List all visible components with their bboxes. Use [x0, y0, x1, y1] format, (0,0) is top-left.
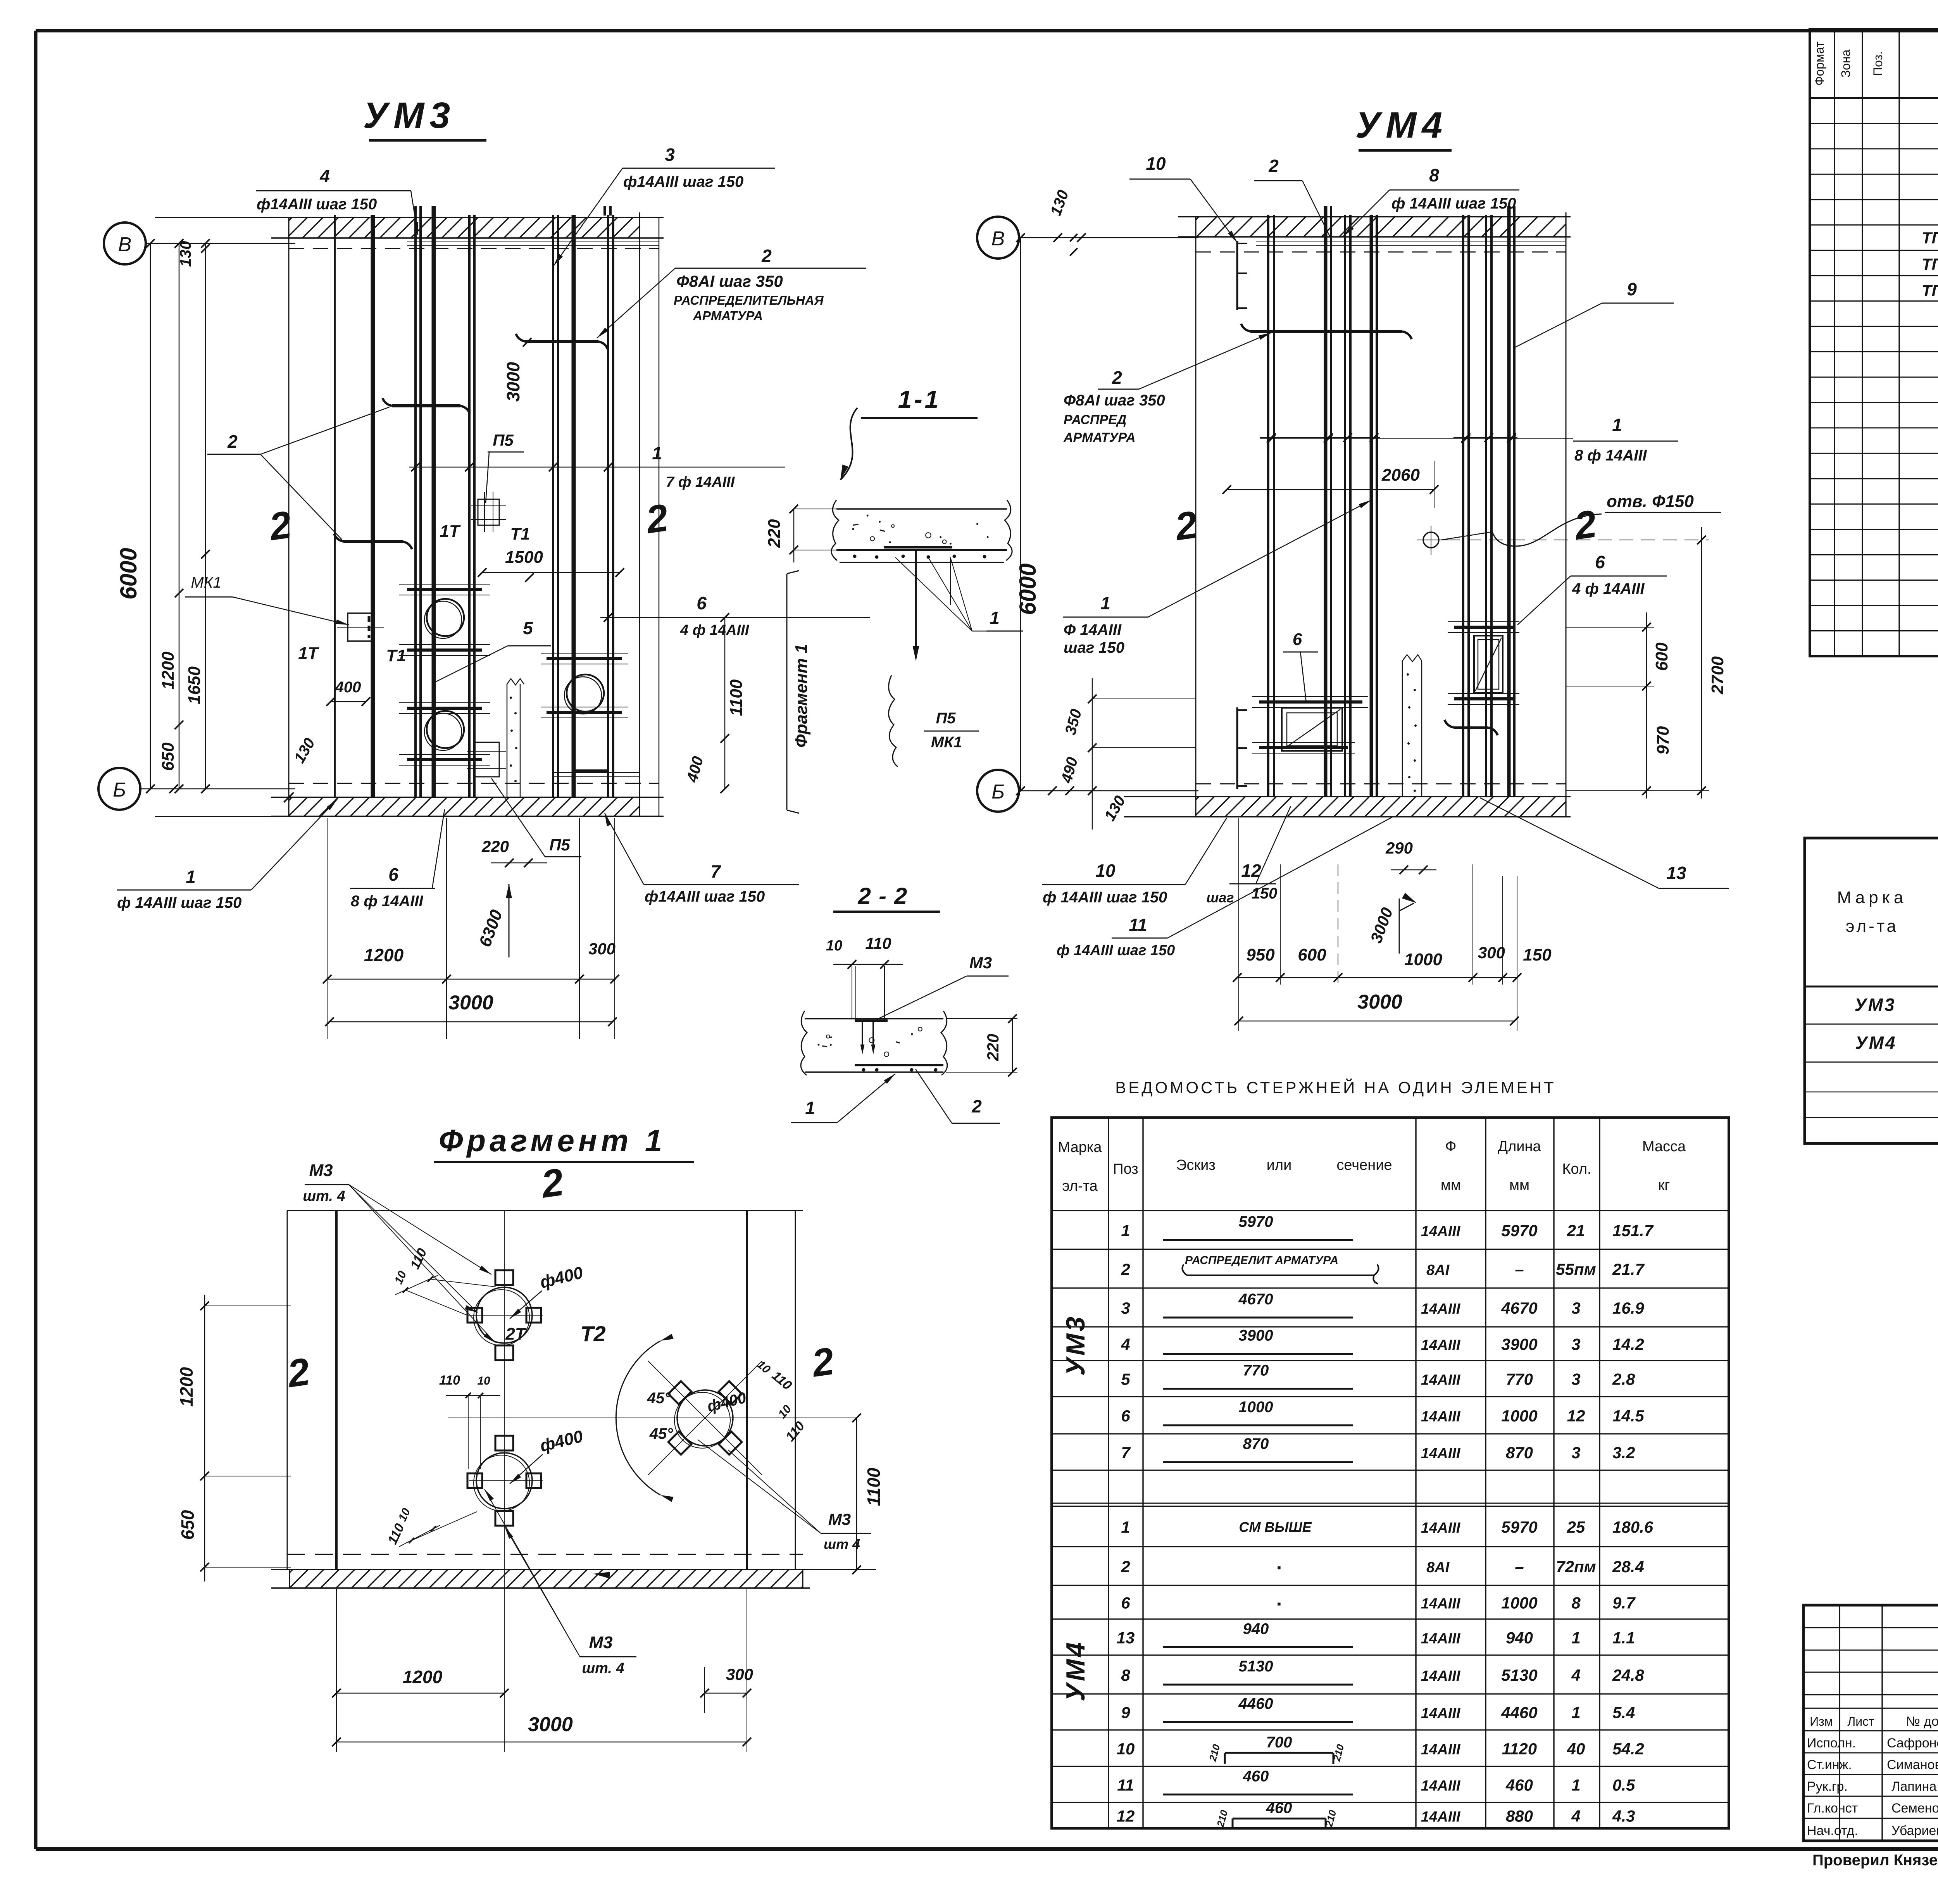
- svg-text:АРМАТУРА: АРМАТУРА: [1063, 430, 1136, 445]
- fragment 1 bottom slab: [271, 1554, 810, 1588]
- UM4 hole otv150: [1417, 526, 1446, 555]
- UM4 left dim chain bottom: [1058, 678, 1196, 830]
- svg-text:Ст.инж.: Ст.инж.: [1807, 1757, 1852, 1772]
- svg-text:Формат: Формат: [1812, 41, 1826, 86]
- svg-text:3000: 3000: [1357, 991, 1402, 1013]
- section 2-2 label 1: [791, 1074, 895, 1123]
- svg-text:мм: мм: [1441, 1177, 1461, 1193]
- svg-text:шаг 150: шаг 150: [1064, 639, 1124, 656]
- spec table header: [1812, 41, 1938, 86]
- UM4 vertical rebars: [1268, 206, 1514, 797]
- svg-text:Длина: Длина: [1498, 1138, 1541, 1155]
- fragment 1 small dims A1: [392, 1246, 496, 1316]
- fragment 1 A3 diagonals: [648, 1361, 762, 1475]
- svg-text:220: 220: [984, 1034, 1002, 1061]
- fragment 1 walls: [287, 1211, 795, 1569]
- svg-text:8: 8: [1121, 1666, 1130, 1684]
- rod row UM3-4: [1121, 1327, 1644, 1354]
- svg-text:1200: 1200: [364, 945, 404, 965]
- svg-text:4 ф 14АIII: 4 ф 14АIII: [1572, 580, 1645, 597]
- svg-text:4670: 4670: [1238, 1291, 1273, 1308]
- svg-text:РАСПРЕДЕЛИТ АРМАТУРА: РАСПРЕДЕЛИТ АРМАТУРА: [1185, 1254, 1338, 1267]
- section 1-1 title: [861, 385, 978, 418]
- svg-text:40: 40: [1567, 1740, 1585, 1758]
- svg-text:Ф 14АIII: Ф 14АIII: [1064, 621, 1122, 638]
- UM4 grid circle B2: [977, 770, 1198, 812]
- svg-text:5.4: 5.4: [1612, 1704, 1635, 1722]
- section 2-2 slab: [801, 1011, 947, 1075]
- svg-text:Рук.гр.: Рук.гр.: [1807, 1779, 1848, 1794]
- svg-text:7 ф 14АIII: 7 ф 14АIII: [666, 474, 735, 490]
- UM4 label 2 top: [1254, 156, 1331, 239]
- svg-text:14АIII: 14АIII: [1421, 1409, 1461, 1425]
- rod row UM4-2: [1121, 1557, 1644, 1576]
- svg-text:3.2: 3.2: [1612, 1444, 1635, 1462]
- svg-text:4460: 4460: [1501, 1704, 1537, 1722]
- svg-text:2700: 2700: [1708, 656, 1727, 695]
- svg-text:6: 6: [1121, 1407, 1130, 1425]
- svg-text:14.2: 14.2: [1612, 1335, 1644, 1354]
- svg-text:шт 4: шт 4: [824, 1536, 860, 1552]
- svg-text:В: В: [991, 228, 1005, 250]
- svg-text:10: 10: [826, 938, 842, 954]
- svg-text:М3: М3: [828, 1510, 851, 1528]
- spec row KZhI-MK1: [1922, 254, 1938, 275]
- UM4 otv150 label: [1441, 492, 1721, 546]
- svg-text:МК1: МК1: [191, 574, 221, 591]
- svg-text:600: 600: [1298, 945, 1326, 964]
- svg-text:Нач.отд.: Нач.отд.: [1807, 1823, 1858, 1838]
- svg-text:2: 2: [1112, 367, 1122, 388]
- svg-text:шт. 4: шт. 4: [582, 1660, 624, 1676]
- svg-text:2060: 2060: [1381, 466, 1420, 485]
- svg-text:СМ ВЫШЕ: СМ ВЫШЕ: [1239, 1519, 1312, 1535]
- svg-text:Кол.: Кол.: [1562, 1161, 1591, 1177]
- svg-text:220: 220: [765, 519, 784, 548]
- rod row UM4-11: [1117, 1768, 1635, 1795]
- svg-text:950: 950: [1246, 945, 1275, 964]
- svg-text:9: 9: [1627, 279, 1637, 299]
- rod list header: [1058, 1138, 1686, 1194]
- svg-text:9: 9: [1121, 1704, 1130, 1722]
- svg-text:21: 21: [1567, 1221, 1585, 1240]
- fragment 1 small dims A2 top: [439, 1373, 500, 1469]
- UM3 bottom dim row 1: [323, 940, 619, 983]
- UM3 bottom label 1: [117, 799, 337, 911]
- rod row UM4-9: [1121, 1695, 1635, 1722]
- svg-text:ТП: ТП: [1922, 255, 1938, 273]
- svg-text:1200: 1200: [176, 1367, 197, 1407]
- UM3 opening O2: [424, 711, 464, 750]
- spec row KZhI-P5: [1922, 280, 1938, 301]
- section 1-1 dim 220: [765, 505, 837, 562]
- fragment 1 f400 label A3: [705, 1389, 748, 1415]
- svg-text:сечение: сечение: [1336, 1157, 1392, 1173]
- UM3 column strip dotted: [507, 679, 524, 797]
- svg-text:28.4: 28.4: [1612, 1557, 1644, 1576]
- svg-text:1: 1: [186, 867, 196, 887]
- UM3 label 2 left: [207, 407, 390, 540]
- section 2-2 bottom plate: [855, 1065, 943, 1072]
- UM3 bottom label 7: [605, 813, 799, 905]
- svg-text:460: 460: [1243, 1768, 1269, 1785]
- svg-text:11: 11: [1129, 915, 1147, 935]
- svg-text:6: 6: [697, 593, 707, 613]
- svg-text:14АIII: 14АIII: [1421, 1742, 1461, 1758]
- section 2-2 anchor stem lines: [852, 966, 885, 1019]
- svg-text:3: 3: [1571, 1335, 1580, 1354]
- rod row UM4-6: [1121, 1594, 1636, 1612]
- UM4 bracket bar top: [1237, 241, 1247, 310]
- UM3 label 5: [433, 618, 551, 683]
- svg-text:10: 10: [1117, 1740, 1135, 1758]
- svg-text:14АIII: 14АIII: [1421, 1223, 1461, 1240]
- fragment 1 bottom dims: [332, 1589, 753, 1752]
- svg-text:13: 13: [1666, 863, 1686, 883]
- svg-text:1200: 1200: [403, 1667, 443, 1687]
- title block header row: [1810, 1714, 1938, 1729]
- section 2-2 dim 220: [946, 1014, 1017, 1076]
- title block left grid: [1804, 1605, 1938, 1841]
- svg-text:150: 150: [1523, 945, 1552, 964]
- fragment 1 label M3 bottom: [484, 1489, 636, 1676]
- UM3 tie bar 2: [334, 534, 412, 549]
- UM3 bottom slab: [271, 797, 664, 816]
- svg-text:1Т: 1Т: [298, 644, 319, 663]
- svg-text:650: 650: [159, 742, 178, 771]
- svg-text:Лапина: Лапина: [1891, 1779, 1936, 1794]
- svg-text:Поз.: Поз.: [1871, 51, 1885, 76]
- rod list grid: [1052, 1118, 1729, 1828]
- rod row UM4-1: [1121, 1518, 1653, 1536]
- svg-text:460: 460: [1266, 1800, 1292, 1817]
- svg-text:2.8: 2.8: [1612, 1370, 1635, 1388]
- svg-text:2: 2: [1268, 156, 1279, 176]
- fragment 1 A3 angle arc: [616, 1334, 673, 1502]
- svg-text:ф 14АIII шаг 150: ф 14АIII шаг 150: [1057, 942, 1175, 959]
- svg-text:4: 4: [1571, 1807, 1580, 1825]
- svg-text:отв. Ф150: отв. Ф150: [1607, 492, 1694, 511]
- UM3 left dim chain A: [159, 239, 183, 793]
- svg-text:1100: 1100: [727, 679, 746, 716]
- UM4 label 11 bottom: [1057, 817, 1392, 959]
- svg-text:4: 4: [319, 166, 330, 186]
- svg-text:7: 7: [1121, 1444, 1131, 1462]
- svg-text:940: 940: [1506, 1629, 1533, 1647]
- svg-text:300: 300: [1478, 943, 1505, 962]
- svg-text:ф 14АIII шаг 150: ф 14АIII шаг 150: [1391, 195, 1516, 212]
- svg-text:1: 1: [805, 1098, 815, 1118]
- UM3 label 6 right: [600, 593, 870, 638]
- svg-text:14АIII: 14АIII: [1421, 1809, 1461, 1825]
- UM3 right dim 1100: [683, 613, 746, 793]
- UM4 stirrup row: [1260, 433, 1517, 442]
- svg-text:1: 1: [1571, 1704, 1580, 1722]
- svg-text:Т1: Т1: [510, 524, 530, 543]
- svg-text:▪: ▪: [1277, 1561, 1281, 1574]
- section 1-1 slab: [831, 500, 1012, 561]
- svg-text:870: 870: [1243, 1435, 1269, 1452]
- svg-text:ВЕДОМОСТЬ СТЕРЖНЕЙ НА ОД: ВЕДОМОСТЬ СТЕРЖНЕЙ НА ОДИН ЭЛЕМЕНТ: [1115, 1078, 1556, 1097]
- svg-text:45°: 45°: [649, 1425, 673, 1442]
- UM3 MK1 label: [185, 574, 349, 625]
- steel row UM3: [1854, 995, 1938, 1016]
- svg-text:–: –: [1515, 1260, 1524, 1278]
- svg-text:кг: кг: [1658, 1177, 1670, 1193]
- svg-text:10: 10: [477, 1375, 490, 1387]
- svg-text:4460: 4460: [1238, 1695, 1273, 1713]
- rod row UM3-1: [1121, 1213, 1654, 1240]
- svg-text:▪: ▪: [1277, 1598, 1281, 1611]
- svg-text:770: 770: [1506, 1370, 1533, 1388]
- UM4 label 2 distribution: [1063, 333, 1271, 445]
- rod row UM3-5: [1121, 1362, 1635, 1389]
- rod row UM3-2: [1121, 1254, 1645, 1284]
- svg-text:1650: 1650: [185, 666, 204, 704]
- svg-text:Симановская: Симановская: [1887, 1757, 1938, 1772]
- steel row UM4: [1855, 1030, 1938, 1054]
- UM4 bottom slab: [1124, 797, 1571, 817]
- svg-text:УМ4: УМ4: [1061, 1640, 1090, 1702]
- svg-text:Марка: Марка: [1058, 1139, 1102, 1156]
- svg-text:5: 5: [1121, 1370, 1130, 1388]
- svg-text:8 ф 14АIII: 8 ф 14АIII: [1574, 447, 1647, 464]
- UM3 distribution bar top: [407, 241, 659, 246]
- svg-text:5970: 5970: [1501, 1221, 1537, 1240]
- svg-text:Лист: Лист: [1847, 1714, 1874, 1728]
- svg-text:14АIII: 14АIII: [1421, 1668, 1461, 1684]
- svg-text:1: 1: [1121, 1518, 1130, 1536]
- svg-text:6000: 6000: [116, 548, 141, 599]
- svg-text:14АIII: 14АIII: [1421, 1445, 1461, 1462]
- UM4 label 12 bottom: [1206, 806, 1291, 905]
- UM3 bottom dim row 2: [325, 992, 617, 1026]
- UM4 bottom dashed line: [1196, 783, 1566, 785]
- svg-text:2Т: 2Т: [505, 1325, 526, 1343]
- svg-text:5130: 5130: [1501, 1666, 1537, 1684]
- fragment 1 f400 label A2: [510, 1426, 585, 1484]
- UM4 label 1 right: [1260, 415, 1678, 464]
- section 1-1 break line below: [888, 675, 898, 767]
- title block outer: [1804, 1605, 1938, 1841]
- spec table grid: [1810, 29, 1938, 688]
- UM4 label 6 right: [1517, 552, 1667, 625]
- svg-text:П5: П5: [936, 710, 956, 727]
- svg-text:УМ3: УМ3: [363, 95, 455, 136]
- svg-text:7: 7: [710, 861, 721, 881]
- svg-text:55пм: 55пм: [1556, 1260, 1596, 1278]
- svg-text:2: 2: [1121, 1557, 1130, 1576]
- svg-text:Т2: Т2: [580, 1321, 605, 1346]
- rod row UM3-7: [1121, 1435, 1635, 1462]
- svg-text:Исполн.: Исполн.: [1807, 1736, 1856, 1751]
- svg-text:3000: 3000: [503, 362, 523, 402]
- svg-text:РАСПРЕДЕЛИТЕЛЬНАЯ: РАСПРЕДЕЛИТЕЛЬНАЯ: [674, 293, 824, 307]
- UM4 bottom extension lines: [1239, 818, 1517, 1031]
- svg-text:5: 5: [523, 618, 533, 638]
- svg-text:№ докум.: № докум.: [1906, 1714, 1938, 1729]
- UM3 left extension lines: [155, 217, 289, 816]
- UM4 right dim 2700: [1446, 527, 1727, 799]
- svg-text:1500: 1500: [505, 548, 543, 567]
- svg-text:МК1: МК1: [931, 734, 962, 751]
- rod list mark UM4: [1061, 1640, 1090, 1702]
- fragment 1 f400 label A1: [510, 1263, 585, 1319]
- svg-text:АРМАТУРА: АРМАТУРА: [693, 309, 763, 323]
- svg-text:3000: 3000: [448, 992, 493, 1014]
- svg-text:970: 970: [1654, 726, 1672, 755]
- UM3 opening O3: [564, 674, 604, 714]
- svg-text:2: 2: [971, 1096, 982, 1116]
- svg-text:3900: 3900: [1239, 1327, 1273, 1344]
- svg-text:3000: 3000: [528, 1713, 573, 1736]
- UM4 opening window 2: [1474, 636, 1503, 693]
- svg-text:6: 6: [1121, 1594, 1130, 1612]
- svg-text:3: 3: [1571, 1444, 1580, 1462]
- svg-text:870: 870: [1506, 1444, 1533, 1462]
- svg-text:УМ4: УМ4: [1855, 1033, 1897, 1053]
- UM3 crossbars right column: [541, 653, 640, 777]
- svg-text:16.9: 16.9: [1612, 1299, 1644, 1317]
- svg-text:1: 1: [1100, 593, 1110, 613]
- svg-text:6: 6: [1293, 630, 1302, 649]
- UM3 grid circle B: [104, 222, 295, 264]
- svg-text:12: 12: [1117, 1807, 1135, 1825]
- UM4 top dashed line: [1196, 252, 1566, 253]
- svg-text:4 ф 14АIII: 4 ф 14АIII: [680, 622, 750, 638]
- svg-text:4670: 4670: [1501, 1299, 1537, 1317]
- fragment 1 title: [434, 1123, 694, 1162]
- svg-text:Эскиз: Эскиз: [1176, 1157, 1216, 1173]
- svg-text:или: или: [1267, 1157, 1292, 1173]
- svg-text:14АIII: 14АIII: [1421, 1778, 1461, 1794]
- UM3 embed P5 mid detail: [471, 492, 506, 532]
- svg-text:эл-та: эл-та: [1846, 917, 1898, 936]
- svg-text:6000: 6000: [1015, 563, 1041, 615]
- svg-text:650: 650: [178, 1510, 198, 1540]
- svg-text:10: 10: [1095, 861, 1116, 881]
- svg-text:Ф8АI шаг 350: Ф8АI шаг 350: [676, 272, 783, 290]
- steel table header: [1837, 844, 1938, 985]
- UM3 bottom label P5: [491, 778, 581, 857]
- svg-text:эл-та: эл-та: [1062, 1178, 1098, 1194]
- svg-text:3: 3: [665, 145, 675, 165]
- rod row UM3-3: [1121, 1291, 1644, 1318]
- svg-text:УМ4: УМ4: [1355, 105, 1448, 146]
- svg-text:ф14АIII шаг 150: ф14АIII шаг 150: [257, 196, 377, 213]
- svg-text:5970: 5970: [1239, 1213, 1273, 1230]
- svg-text:Зона: Зона: [1839, 50, 1853, 78]
- UM4 label 1 left: [1063, 500, 1371, 656]
- svg-text:1200: 1200: [159, 652, 178, 690]
- rod row UM4-10: [1117, 1734, 1644, 1764]
- svg-text:24.8: 24.8: [1612, 1666, 1644, 1684]
- svg-text:110: 110: [866, 934, 891, 952]
- svg-text:290: 290: [1385, 839, 1413, 857]
- svg-text:ф14АIII шаг 150: ф14АIII шаг 150: [623, 173, 743, 190]
- svg-text:Поз: Поз: [1113, 1161, 1138, 1177]
- svg-text:Фрагмент 1: Фрагмент 1: [792, 644, 811, 748]
- svg-text:1000: 1000: [1501, 1407, 1537, 1425]
- svg-text:1-1: 1-1: [898, 385, 941, 413]
- svg-text:3: 3: [1121, 1299, 1130, 1317]
- svg-text:ф 14АIII шаг 150: ф 14АIII шаг 150: [117, 894, 241, 911]
- svg-text:УМ3: УМ3: [1061, 1314, 1090, 1376]
- UM4 left dim 6000: [1015, 233, 1041, 795]
- footer proveril: [1812, 1850, 1938, 1869]
- svg-text:14АIII: 14АIII: [1421, 1706, 1461, 1722]
- svg-text:Сафронеева: Сафронеева: [1887, 1736, 1938, 1751]
- fragment 1 anchor circle A3: [668, 1381, 741, 1454]
- svg-text:ф 14АIII шаг 150: ф 14АIII шаг 150: [1043, 889, 1167, 906]
- svg-text:14АIII: 14АIII: [1421, 1596, 1461, 1612]
- UM3 bottom dashed bar line: [289, 783, 659, 784]
- UM4 label 8 top: [1343, 165, 1519, 236]
- rod row UM4-12: [1117, 1800, 1635, 1830]
- svg-text:110: 110: [439, 1373, 460, 1388]
- svg-text:Убариев: Убариев: [1891, 1823, 1938, 1838]
- UM3 embed P5 bottom detail: [467, 742, 506, 777]
- svg-text:700: 700: [1266, 1734, 1292, 1751]
- UM4 opening window 1: [1282, 708, 1342, 751]
- UM3 vertical rebars: [335, 206, 613, 797]
- svg-text:1Т: 1Т: [440, 522, 460, 541]
- svg-text:10: 10: [1146, 153, 1166, 174]
- svg-text:1: 1: [1612, 415, 1622, 435]
- svg-text:45°: 45°: [647, 1390, 671, 1407]
- UM3 label 3 top: [553, 145, 775, 266]
- rod list title: [1115, 1078, 1556, 1097]
- svg-text:600: 600: [1652, 642, 1671, 671]
- svg-text:2-2: 2-2: [858, 883, 915, 909]
- svg-text:Семенов: Семенов: [1891, 1801, 1938, 1816]
- UM3 wall edges: [289, 217, 659, 816]
- UM4 label 10 top: [1129, 153, 1237, 243]
- UM3 left dim chain B: [177, 241, 210, 789]
- fragment 1 anchor circle A2: [467, 1436, 541, 1526]
- UM4 right dim chain: [1566, 612, 1672, 799]
- section 2-2 title: [833, 883, 940, 912]
- svg-text:1: 1: [990, 608, 1000, 628]
- svg-text:мм: мм: [1509, 1177, 1529, 1193]
- section 2-2 anchor M3 detail: [855, 1021, 888, 1054]
- svg-text:Масса: Масса: [1642, 1138, 1686, 1155]
- svg-text:Гл.конст: Гл.конст: [1807, 1801, 1858, 1816]
- fragment 1 label M3 right: [698, 1440, 871, 1552]
- UM3 dim 220: [481, 837, 547, 867]
- svg-text:0.5: 0.5: [1612, 1776, 1635, 1794]
- UM3 title: [363, 95, 486, 140]
- svg-text:4: 4: [1121, 1335, 1130, 1354]
- svg-text:Изм: Изм: [1810, 1714, 1833, 1728]
- fragment 1 section cut marks: [284, 1160, 837, 1396]
- UM3 top dashed bar line: [289, 248, 659, 249]
- svg-text:2: 2: [761, 246, 772, 266]
- UM4 distribution bar top: [1256, 241, 1566, 246]
- svg-text:РАСПРЕД: РАСПРЕД: [1064, 412, 1126, 427]
- UM3 label 1 row: [409, 443, 785, 490]
- svg-text:14АIII: 14АIII: [1421, 1631, 1461, 1647]
- fragment 1 right dim 1100: [795, 1414, 884, 1574]
- section 2-2 label 2: [916, 1069, 1000, 1123]
- svg-text:12: 12: [1567, 1407, 1585, 1425]
- section 1-1 embed plate P5: [884, 547, 952, 661]
- svg-text:300: 300: [588, 940, 616, 958]
- UM3 top slab: [271, 212, 664, 244]
- UM3 embed MK1 detail: [337, 613, 384, 641]
- section 2-2 label M3: [877, 954, 1009, 1019]
- svg-text:940: 940: [1243, 1621, 1269, 1638]
